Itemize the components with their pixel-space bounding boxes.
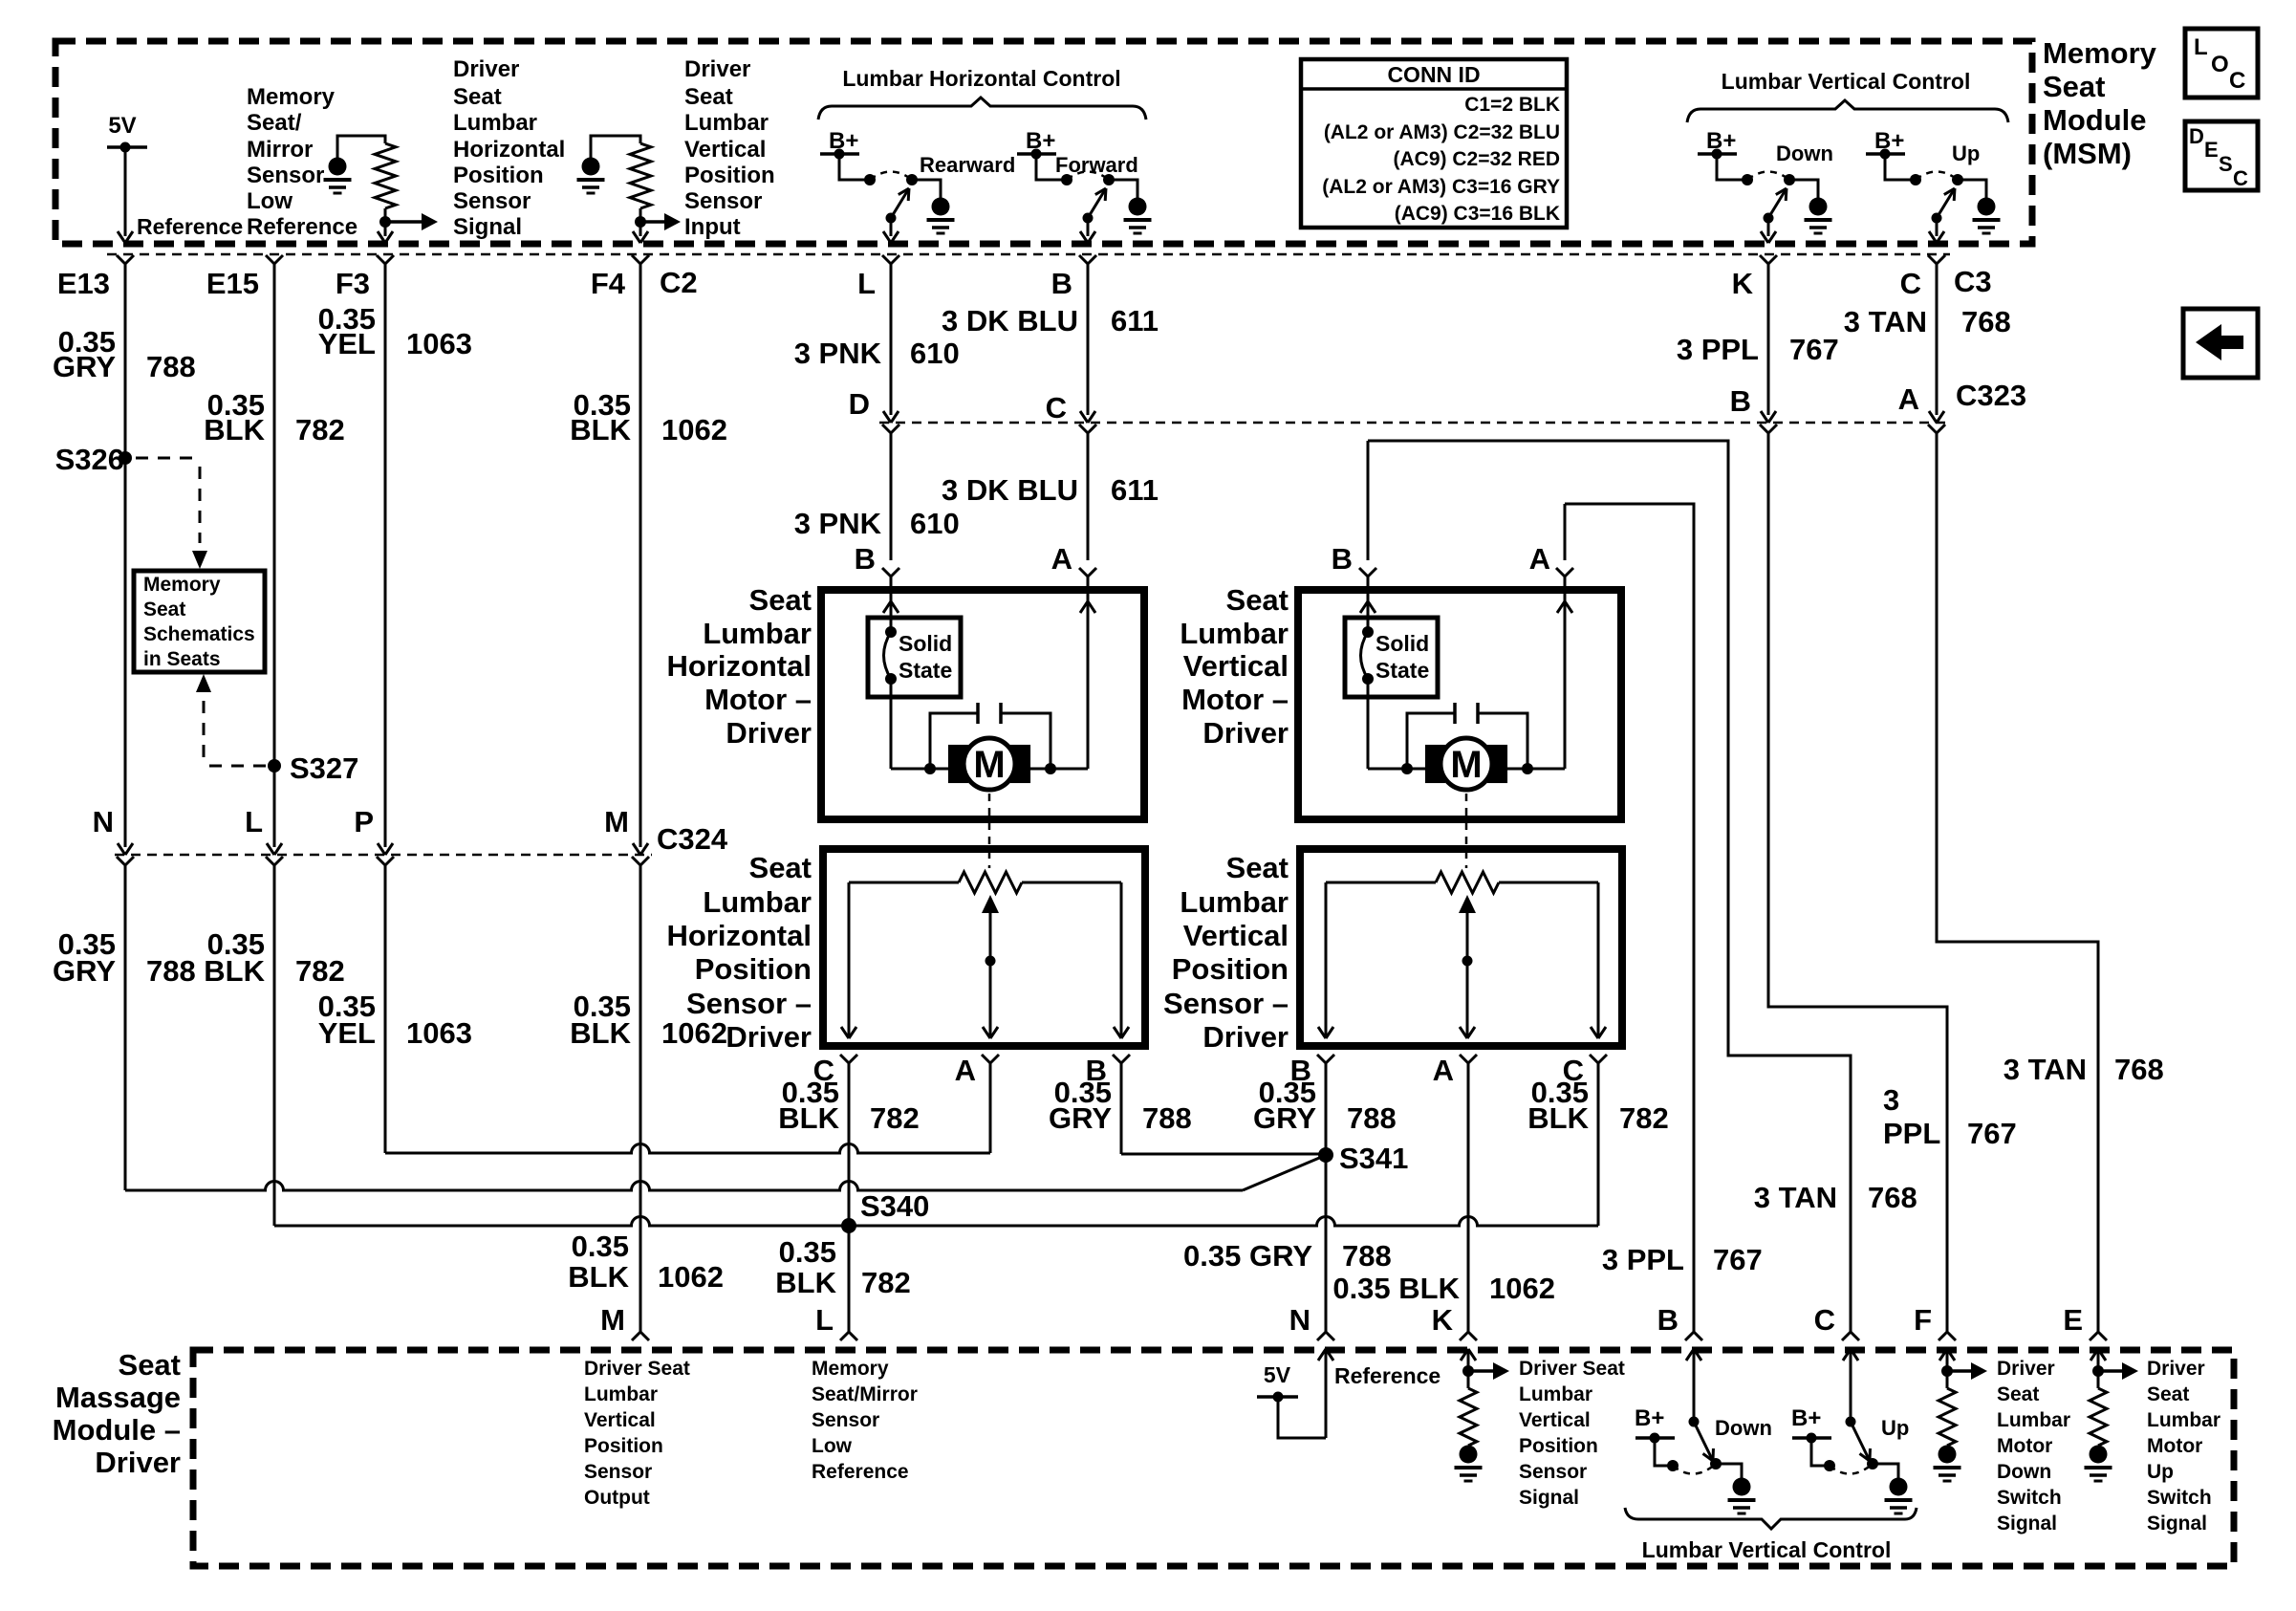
svg-text:L: L [245,805,263,838]
svg-text:M: M [604,805,629,838]
svg-text:M: M [1450,744,1482,786]
svg-text:Mirror: Mirror [247,137,313,163]
svg-text:Sensor: Sensor [684,188,762,214]
svg-text:Driver: Driver [726,716,812,750]
svg-text:Position: Position [695,952,812,986]
svg-text:B+: B+ [1026,128,1055,154]
svg-text:0.35 GRY: 0.35 GRY [1183,1239,1312,1273]
svg-text:Driver: Driver [453,56,519,82]
svg-text:GRY: GRY [53,954,116,988]
svg-text:Signal: Signal [1519,1487,1579,1509]
svg-text:5V: 5V [1264,1362,1291,1387]
svg-text:788: 788 [1142,1101,1192,1135]
svg-text:B: B [1730,384,1751,418]
svg-text:K: K [1432,1303,1454,1337]
svg-text:Motor: Motor [2147,1435,2202,1457]
svg-text:Signal: Signal [2147,1513,2207,1535]
svg-text:788: 788 [1342,1239,1392,1273]
svg-text:BLK: BLK [778,1101,839,1135]
svg-text:C: C [2229,68,2245,94]
svg-text:S327: S327 [290,751,358,785]
svg-text:3 DK BLU: 3 DK BLU [942,473,1078,507]
svg-text:Low: Low [247,188,292,214]
svg-text:L: L [2194,34,2208,60]
svg-text:BLK: BLK [204,413,265,446]
svg-text:E15: E15 [206,267,259,300]
svg-text:Sensor: Sensor [1519,1461,1587,1483]
svg-text:Sensor: Sensor [453,188,531,214]
svg-text:O: O [2211,52,2229,77]
svg-text:K: K [1732,267,1754,300]
svg-text:S: S [2219,152,2233,176]
svg-text:M: M [600,1303,625,1337]
svg-text:782: 782 [295,413,345,446]
svg-text:N: N [1289,1303,1310,1337]
svg-text:Lumbar: Lumbar [703,617,812,650]
svg-text:Seat: Seat [1226,583,1289,617]
svg-text:Lumbar: Lumbar [1180,885,1289,919]
svg-text:767: 767 [1789,333,1839,366]
svg-text:Up: Up [1952,142,1980,165]
svg-text:Seat: Seat [2043,70,2105,103]
svg-text:Driver: Driver [1202,716,1289,750]
svg-text:Solid: Solid [1375,631,1429,656]
svg-text:0.35: 0.35 [572,1230,629,1263]
svg-text:782: 782 [870,1101,920,1135]
svg-text:YEL: YEL [318,327,376,360]
svg-text:768: 768 [1868,1181,1917,1214]
svg-text:B+: B+ [829,128,858,154]
svg-text:1062: 1062 [1489,1272,1555,1305]
svg-text:Seat: Seat [1226,851,1289,884]
svg-text:Module: Module [2043,103,2147,137]
svg-text:3 PPL: 3 PPL [1602,1243,1684,1276]
svg-text:3 TAN: 3 TAN [1754,1181,1837,1214]
svg-text:782: 782 [295,954,345,988]
svg-text:Driver Seat: Driver Seat [1519,1358,1625,1380]
svg-text:Reference: Reference [137,214,243,239]
svg-text:L: L [857,267,876,300]
svg-text:Vertical: Vertical [1519,1409,1591,1431]
svg-text:F3: F3 [336,267,370,300]
svg-text:Horizontal: Horizontal [666,919,812,952]
svg-text:Module –: Module – [53,1413,181,1447]
svg-text:State: State [899,658,952,683]
svg-text:E: E [2063,1303,2083,1337]
svg-text:1062: 1062 [661,1016,727,1050]
svg-text:Driver: Driver [1202,1020,1289,1054]
svg-text:Horizontal: Horizontal [453,137,565,163]
svg-text:B+: B+ [1635,1405,1664,1431]
svg-text:Vertical: Vertical [584,1409,656,1431]
svg-text:C: C [1814,1303,1835,1337]
svg-text:Up: Up [1881,1416,1909,1440]
svg-text:BLK: BLK [570,413,631,446]
svg-text:Lumbar Horizontal Control: Lumbar Horizontal Control [842,66,1120,91]
svg-text:Reference: Reference [247,214,357,240]
svg-text:Seat: Seat [684,84,733,110]
svg-text:Seat: Seat [749,851,812,884]
svg-text:Switch: Switch [1997,1487,2062,1509]
svg-text:Massage: Massage [55,1381,181,1414]
svg-text:Sensor –: Sensor – [1163,987,1289,1020]
svg-text:Memory: Memory [247,84,336,110]
svg-text:3 TAN: 3 TAN [1844,305,1927,338]
svg-text:Seat: Seat [749,583,812,617]
svg-text:BLK: BLK [570,1016,631,1050]
svg-text:788: 788 [146,350,196,383]
svg-text:PPL: PPL [1883,1117,1940,1150]
svg-text:Memory: Memory [2043,36,2157,70]
svg-text:3 TAN: 3 TAN [2004,1053,2087,1086]
svg-text:767: 767 [1967,1117,2017,1150]
svg-text:GRY: GRY [1253,1101,1316,1135]
svg-text:BLK: BLK [204,954,265,988]
svg-text:Output: Output [584,1487,650,1509]
svg-text:Seat: Seat [453,84,502,110]
svg-text:768: 768 [1961,305,2011,338]
svg-text:GRY: GRY [1049,1101,1112,1135]
svg-text:A: A [1051,542,1072,576]
svg-text:Position: Position [1172,952,1289,986]
svg-text:Up: Up [2147,1461,2174,1483]
svg-text:Position: Position [453,163,544,188]
svg-text:767: 767 [1713,1243,1763,1276]
svg-text:Lumbar: Lumbar [1997,1409,2070,1431]
svg-text:Driver: Driver [726,1020,812,1054]
svg-text:1063: 1063 [406,327,472,360]
svg-text:N: N [93,805,114,838]
svg-text:Forward: Forward [1055,153,1138,177]
svg-text:E13: E13 [57,267,110,300]
svg-text:5V: 5V [108,113,136,139]
svg-text:Switch: Switch [2147,1487,2212,1509]
svg-text:B: B [1657,1303,1679,1337]
svg-text:Low: Low [812,1435,853,1457]
svg-text:Sensor: Sensor [584,1461,652,1483]
svg-text:Lumbar: Lumbar [703,885,812,919]
svg-text:(AL2 or AM3) C3=16 GRY: (AL2 or AM3) C3=16 GRY [1322,176,1560,198]
svg-text:M: M [973,744,1005,786]
svg-text:610: 610 [910,337,960,370]
svg-text:788: 788 [146,954,196,988]
svg-text:B+: B+ [1874,128,1904,154]
svg-text:Memory: Memory [812,1358,889,1380]
svg-text:611: 611 [1111,473,1159,507]
svg-text:Lumbar: Lumbar [684,110,769,136]
svg-text:Vertical: Vertical [1183,919,1289,952]
svg-text:P: P [354,805,374,838]
svg-text:A: A [1529,542,1550,576]
svg-text:L: L [815,1303,834,1337]
svg-text:Seat/Mirror: Seat/Mirror [812,1383,918,1405]
svg-text:Lumbar: Lumbar [584,1383,658,1405]
svg-text:Driver: Driver [95,1446,181,1479]
svg-text:A: A [1898,382,1919,416]
svg-text:C: C [2233,166,2248,190]
svg-text:Down: Down [1715,1416,1772,1440]
svg-text:Seat: Seat [119,1348,181,1382]
svg-text:768: 768 [2114,1053,2164,1086]
svg-text:Input: Input [684,214,741,240]
svg-text:S326: S326 [55,443,124,476]
svg-text:B: B [1051,267,1072,300]
svg-text:610: 610 [910,507,960,540]
svg-text:GRY: GRY [53,350,116,383]
svg-text:Seat: Seat [2147,1383,2189,1405]
svg-text:B+: B+ [1791,1405,1821,1431]
svg-text:CONN ID: CONN ID [1387,62,1480,87]
svg-text:1062: 1062 [658,1260,724,1294]
svg-text:3: 3 [1883,1083,1899,1117]
svg-text:Sensor: Sensor [812,1409,879,1431]
svg-text:Motor: Motor [1997,1435,2052,1457]
svg-text:Signal: Signal [1997,1513,2057,1535]
svg-text:A: A [955,1054,976,1087]
svg-text:Down: Down [1776,142,1833,165]
svg-text:E: E [2204,138,2219,162]
svg-text:Lumbar: Lumbar [2147,1409,2220,1431]
svg-text:Position: Position [1519,1435,1598,1457]
svg-text:Solid: Solid [899,631,952,656]
svg-text:Driver: Driver [2147,1358,2205,1380]
svg-text:1063: 1063 [406,1016,472,1050]
svg-text:0.35 BLK: 0.35 BLK [1332,1272,1460,1305]
svg-text:(AL2 or AM3) C2=32 BLU: (AL2 or AM3) C2=32 BLU [1324,121,1560,143]
svg-text:Signal: Signal [453,214,522,240]
svg-text:S340: S340 [860,1189,929,1223]
svg-text:3 PNK: 3 PNK [794,337,882,370]
svg-text:0.35: 0.35 [779,1235,836,1269]
svg-text:BLK: BLK [568,1260,629,1294]
svg-text:Lumbar Vertical Control: Lumbar Vertical Control [1642,1537,1892,1562]
svg-text:C3: C3 [1954,265,1992,298]
svg-text:BLK: BLK [1527,1101,1589,1135]
svg-text:Seat: Seat [143,599,185,620]
svg-text:Seat: Seat [1997,1383,2039,1405]
svg-text:Lumbar Vertical Control: Lumbar Vertical Control [1722,69,1971,94]
svg-text:Reference: Reference [812,1461,909,1483]
svg-text:Motor –: Motor – [704,683,812,716]
svg-text:Schematics: Schematics [143,623,255,645]
svg-text:C: C [1900,267,1921,300]
svg-text:B+: B+ [1706,128,1736,154]
svg-text:Motor –: Motor – [1181,683,1289,716]
svg-text:(AC9) C3=16 BLK: (AC9) C3=16 BLK [1395,203,1560,225]
svg-text:YEL: YEL [318,1016,376,1050]
svg-text:Lumbar: Lumbar [1180,617,1289,650]
svg-text:Sensor –: Sensor – [686,987,812,1020]
svg-text:Down: Down [1997,1461,2051,1483]
svg-text:Reference: Reference [1334,1363,1440,1388]
svg-text:Sensor: Sensor [247,163,324,188]
svg-text:D: D [2189,124,2204,148]
svg-text:Driver Seat: Driver Seat [584,1358,690,1380]
svg-text:Driver: Driver [1997,1358,2055,1380]
svg-text:F: F [1914,1303,1932,1337]
svg-text:3 PPL: 3 PPL [1677,333,1759,366]
svg-text:(AC9) C2=32 RED: (AC9) C2=32 RED [1394,148,1560,170]
svg-text:C1=2 BLK: C1=2 BLK [1464,94,1560,116]
svg-text:Lumbar: Lumbar [1519,1383,1592,1405]
svg-text:Memory: Memory [143,574,221,596]
svg-text:A: A [1433,1054,1454,1087]
svg-text:C: C [1046,391,1067,425]
svg-text:C324: C324 [657,822,728,856]
svg-text:Seat/: Seat/ [247,110,302,136]
svg-text:F4: F4 [591,267,626,300]
svg-text:Position: Position [584,1435,663,1457]
svg-text:3 DK BLU: 3 DK BLU [942,304,1078,337]
svg-text:3 PNK: 3 PNK [794,507,882,540]
svg-text:S341: S341 [1339,1142,1408,1175]
svg-text:Lumbar: Lumbar [453,110,537,136]
svg-text:BLK: BLK [775,1266,836,1299]
svg-text:Rearward: Rearward [920,153,1015,177]
svg-text:B: B [1332,542,1353,576]
svg-text:State: State [1375,658,1429,683]
svg-text:D: D [849,387,870,421]
svg-text:B: B [855,542,876,576]
svg-text:(MSM): (MSM) [2043,137,2132,170]
svg-text:611: 611 [1111,304,1159,337]
svg-text:Horizontal: Horizontal [666,649,812,683]
svg-text:Vertical: Vertical [1183,649,1289,683]
svg-text:C2: C2 [660,266,698,299]
svg-text:Vertical: Vertical [684,137,766,163]
svg-text:782: 782 [861,1266,911,1299]
svg-text:788: 788 [1347,1101,1397,1135]
svg-text:in Seats: in Seats [143,648,221,670]
svg-text:1062: 1062 [661,413,727,446]
svg-text:Position: Position [684,163,775,188]
svg-text:C323: C323 [1956,379,2026,412]
svg-text:782: 782 [1619,1101,1669,1135]
svg-text:Driver: Driver [684,56,750,82]
